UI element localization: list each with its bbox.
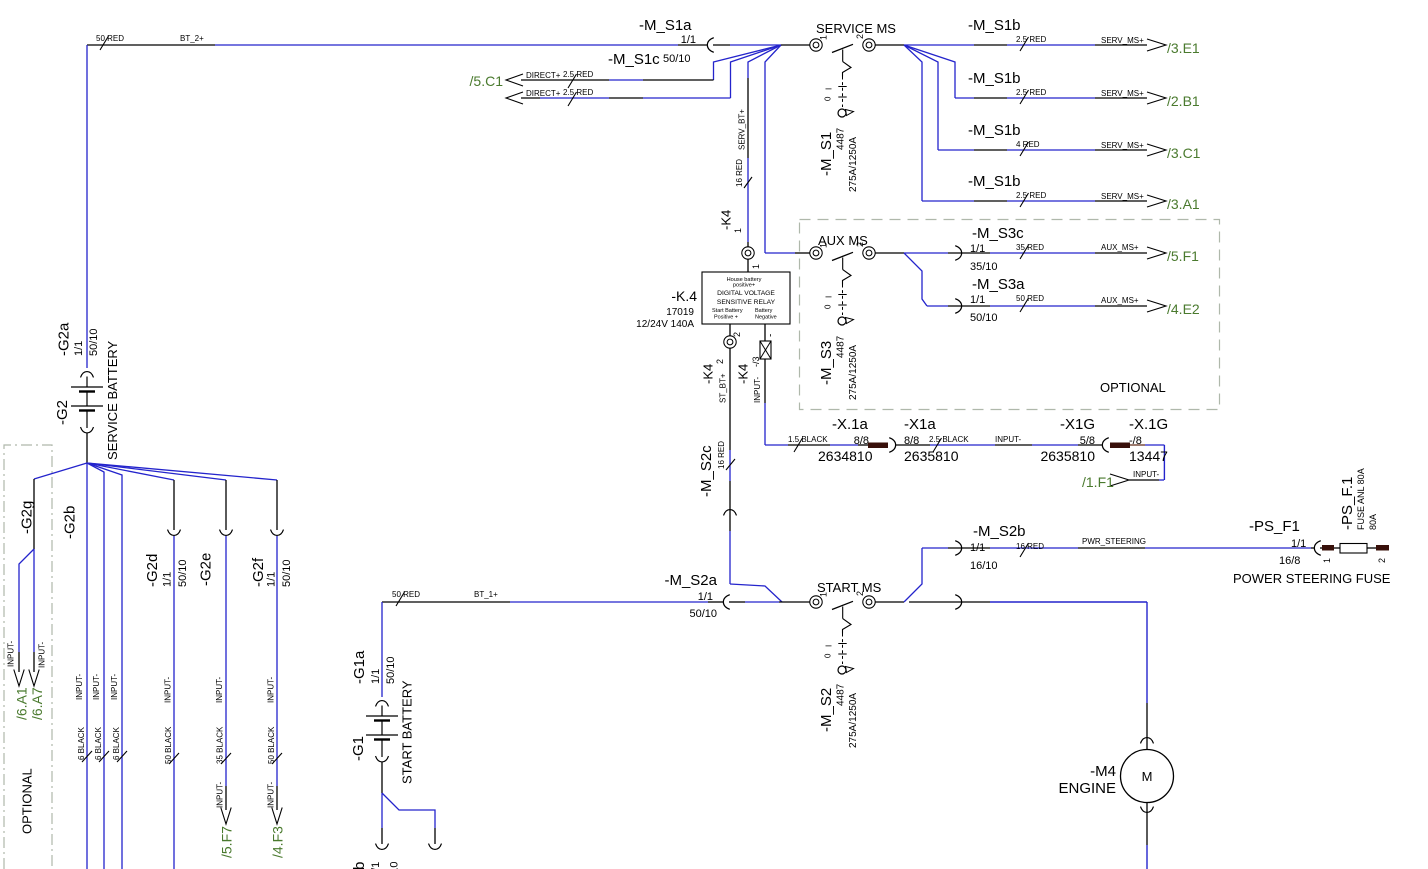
svg-text:50 RED: 50 RED — [392, 590, 420, 599]
svg-text:2: 2 — [732, 332, 742, 337]
svg-text:INPUT-: INPUT- — [110, 673, 119, 700]
svg-text:1: 1 — [818, 592, 828, 597]
svg-text:-/8: -/8 — [1129, 435, 1142, 447]
svg-text:I: I — [825, 88, 834, 90]
svg-text:1/1: 1/1 — [1291, 538, 1306, 550]
svg-text:-G1a: -G1a — [351, 650, 368, 684]
svg-text:13447: 13447 — [1129, 448, 1168, 464]
svg-text:-K4: -K4 — [718, 210, 733, 230]
svg-text:SERV_MS+: SERV_MS+ — [1101, 192, 1144, 201]
svg-text:16 RED: 16 RED — [735, 159, 744, 187]
svg-text:-M_S1c: -M_S1c — [608, 51, 660, 68]
svg-text:275A/1250A: 275A/1250A — [848, 137, 859, 192]
svg-text:START BATTERY: START BATTERY — [399, 680, 414, 784]
svg-text:-K4: -K4 — [700, 364, 715, 384]
svg-text:-M_S3: -M_S3 — [818, 341, 835, 385]
svg-text:Negative: Negative — [755, 315, 777, 321]
svg-text:INPUT-: INPUT- — [215, 676, 224, 703]
svg-text:6 BLACK: 6 BLACK — [94, 726, 103, 760]
svg-text:50/10: 50/10 — [281, 559, 293, 587]
svg-text:AUX_MS+: AUX_MS+ — [1101, 243, 1139, 252]
svg-text:SERV_MS+: SERV_MS+ — [1101, 89, 1144, 98]
svg-text:-M_S1b: -M_S1b — [968, 173, 1021, 190]
svg-text:OPTIONAL: OPTIONAL — [1100, 380, 1166, 395]
svg-text:INPUT-: INPUT- — [7, 640, 16, 667]
svg-text:2634810: 2634810 — [818, 448, 873, 464]
svg-text:Battery: Battery — [755, 308, 773, 314]
svg-text:-G1: -G1 — [350, 736, 367, 761]
svg-text:4487: 4487 — [835, 127, 846, 150]
svg-text:-M_S2: -M_S2 — [818, 688, 835, 732]
svg-text:2.5 RED: 2.5 RED — [563, 70, 593, 79]
svg-text:-G2f: -G2f — [250, 557, 267, 587]
svg-text:1/1: 1/1 — [370, 862, 382, 869]
svg-text:PWR_STEERING: PWR_STEERING — [1082, 537, 1146, 546]
svg-text:-K4: -K4 — [735, 364, 750, 384]
svg-text:2: 2 — [855, 242, 865, 247]
svg-text:-X.1a: -X.1a — [832, 416, 869, 433]
svg-text:SERVICE MS: SERVICE MS — [816, 21, 896, 36]
svg-text:-G2: -G2 — [54, 400, 71, 425]
svg-text:INPUT-: INPUT- — [92, 673, 101, 700]
svg-text:0: 0 — [824, 304, 833, 309]
svg-text:-PS_F.1: -PS_F.1 — [1339, 477, 1356, 530]
svg-text:-: - — [765, 334, 776, 337]
svg-text:-PS_F1: -PS_F1 — [1249, 518, 1300, 535]
svg-text:50/10: 50/10 — [970, 312, 998, 324]
svg-text:I: I — [825, 645, 834, 647]
svg-text:35/10: 35/10 — [970, 261, 998, 273]
svg-text:-K.4: -K.4 — [671, 288, 697, 304]
svg-text:2.5 RED: 2.5 RED — [563, 88, 593, 97]
svg-text:DIRECT+: DIRECT+ — [526, 89, 561, 98]
svg-text:/1.F1: /1.F1 — [1082, 474, 1114, 490]
svg-text:-G2b: -G2b — [61, 506, 78, 539]
svg-text:OPTIONAL: OPTIONAL — [19, 768, 34, 834]
svg-text:275A/1250A: 275A/1250A — [848, 345, 859, 400]
svg-text:1/1: 1/1 — [970, 243, 985, 255]
svg-text:1/1: 1/1 — [681, 34, 696, 46]
svg-text:-M_S2c: -M_S2c — [698, 445, 715, 497]
svg-text:-M_S3a: -M_S3a — [972, 276, 1025, 293]
svg-text:2635810: 2635810 — [904, 448, 959, 464]
svg-text:-X1G: -X1G — [1060, 416, 1095, 433]
svg-text:DIRECT+: DIRECT+ — [526, 71, 561, 80]
svg-text:FUSE ANL 80A: FUSE ANL 80A — [1356, 468, 1366, 530]
svg-text:SERV_BT+: SERV_BT+ — [738, 109, 747, 150]
svg-text:275A/1250A: 275A/1250A — [848, 693, 859, 748]
svg-text:2.5 RED: 2.5 RED — [1016, 191, 1046, 200]
svg-text:35 BLACK: 35 BLACK — [216, 726, 225, 764]
svg-text:/3.C1: /3.C1 — [1167, 145, 1201, 161]
svg-text:4487: 4487 — [835, 683, 846, 706]
svg-text:/3.A1: /3.A1 — [1167, 196, 1200, 212]
svg-text:50/10: 50/10 — [689, 608, 717, 620]
svg-text:8/8: 8/8 — [854, 435, 869, 447]
svg-text:/2.B1: /2.B1 — [1167, 93, 1200, 109]
svg-text:12/24V 140A: 12/24V 140A — [636, 319, 694, 330]
svg-text:35 RED: 35 RED — [1016, 243, 1044, 252]
svg-text:-M_S2a: -M_S2a — [664, 572, 717, 589]
svg-text:1: 1 — [1322, 558, 1332, 563]
svg-text:SERV_MS+: SERV_MS+ — [1101, 36, 1144, 45]
svg-text:-M4: -M4 — [1090, 763, 1116, 780]
svg-text:1/1: 1/1 — [370, 669, 382, 684]
svg-text:2.5 RED: 2.5 RED — [1016, 88, 1046, 97]
svg-text:1: 1 — [818, 35, 828, 40]
svg-text:2: 2 — [855, 591, 865, 596]
svg-text:50 BLACK: 50 BLACK — [267, 726, 276, 764]
svg-text:5/8: 5/8 — [1080, 435, 1095, 447]
svg-text:50 RED: 50 RED — [1016, 294, 1044, 303]
svg-text:-M_S1a: -M_S1a — [639, 17, 692, 34]
svg-text:1/1: 1/1 — [970, 294, 985, 306]
svg-text:ENGINE: ENGINE — [1058, 780, 1116, 797]
svg-text:4 RED: 4 RED — [1016, 140, 1040, 149]
svg-text:Start Battery: Start Battery — [712, 308, 743, 314]
svg-text:1/1: 1/1 — [266, 572, 278, 587]
svg-text:BT_2+: BT_2+ — [180, 34, 204, 43]
svg-text:17019: 17019 — [666, 307, 694, 318]
svg-text:/5.C1: /5.C1 — [470, 73, 504, 89]
svg-text:/4.E2: /4.E2 — [1167, 301, 1200, 317]
svg-text:INPUT-: INPUT- — [164, 676, 173, 703]
svg-text:16 RED: 16 RED — [1016, 542, 1044, 551]
svg-text:/4.F3: /4.F3 — [270, 826, 286, 858]
svg-text:2635810: 2635810 — [1040, 448, 1095, 464]
svg-text:/3.E1: /3.E1 — [1167, 40, 1200, 56]
svg-text:16 RED: 16 RED — [717, 441, 726, 469]
svg-text:INPUT-: INPUT- — [995, 435, 1022, 444]
svg-text:50/10: 50/10 — [177, 559, 189, 587]
svg-text:SERVICE BATTERY: SERVICE BATTERY — [105, 340, 120, 460]
svg-text:1/1: 1/1 — [73, 341, 85, 356]
svg-text:INPUT-: INPUT- — [38, 641, 47, 668]
svg-text:50 RED: 50 RED — [96, 34, 124, 43]
svg-text:-G2g: -G2g — [18, 501, 35, 534]
svg-text:4487: 4487 — [835, 335, 846, 358]
svg-text:1: 1 — [818, 243, 828, 248]
svg-text:/5.F7: /5.F7 — [219, 826, 235, 858]
svg-text:-M_S1: -M_S1 — [818, 132, 835, 176]
svg-text:-X.1G: -X.1G — [1129, 416, 1168, 433]
svg-text:Positive +: Positive + — [714, 315, 738, 321]
svg-text:1: 1 — [733, 228, 743, 233]
svg-text:6 BLACK: 6 BLACK — [77, 726, 86, 760]
svg-text:2.5 RED: 2.5 RED — [1016, 35, 1046, 44]
svg-text:DIGITAL VOLTAGE: DIGITAL VOLTAGE — [717, 290, 775, 297]
svg-text:1/1: 1/1 — [698, 591, 713, 603]
svg-text:2: 2 — [1377, 558, 1387, 563]
svg-text:I: I — [825, 296, 834, 298]
svg-text:-G1b: -G1b — [351, 862, 368, 869]
svg-text:6 BLACK: 6 BLACK — [112, 726, 121, 760]
svg-text:-X1a: -X1a — [904, 416, 936, 433]
svg-text:INPUT-: INPUT- — [267, 676, 276, 703]
svg-text:2.5 BLACK: 2.5 BLACK — [929, 435, 969, 444]
svg-text:50/10: 50/10 — [88, 328, 100, 356]
svg-text:50/10: 50/10 — [385, 656, 397, 684]
svg-text:M: M — [1142, 769, 1153, 784]
svg-text:INPUT-: INPUT- — [1133, 470, 1160, 479]
svg-text:ST_BT+: ST_BT+ — [719, 373, 728, 403]
svg-text:8/8: 8/8 — [904, 435, 919, 447]
svg-text:80A: 80A — [1368, 514, 1378, 530]
svg-text:16/8: 16/8 — [1279, 555, 1300, 567]
svg-text:0: 0 — [824, 96, 833, 101]
svg-text:-G2e: -G2e — [197, 553, 214, 586]
svg-text:/6.A1: /6.A1 — [14, 687, 30, 720]
svg-text:0: 0 — [824, 653, 833, 658]
svg-text:-G2d: -G2d — [144, 554, 161, 587]
svg-text:AUX_MS+: AUX_MS+ — [1101, 296, 1139, 305]
svg-text:SENSITIVE RELAY: SENSITIVE RELAY — [717, 299, 776, 306]
svg-text:1/1: 1/1 — [162, 572, 174, 587]
svg-text:2: 2 — [715, 359, 725, 364]
svg-text:positive+: positive+ — [733, 283, 755, 289]
svg-text:2: 2 — [855, 34, 865, 39]
svg-text:-M_S1b: -M_S1b — [968, 17, 1021, 34]
svg-text:50/10: 50/10 — [663, 53, 691, 65]
svg-text:16/10: 16/10 — [970, 560, 998, 572]
svg-text:1/1: 1/1 — [970, 542, 985, 554]
svg-text:INPUT-: INPUT- — [267, 781, 276, 808]
svg-text:INPUT-: INPUT- — [75, 673, 84, 700]
svg-text:50 BLACK: 50 BLACK — [164, 726, 173, 764]
svg-text:50/10: 50/10 — [389, 861, 401, 869]
svg-text:SERV_MS+: SERV_MS+ — [1101, 141, 1144, 150]
svg-text:-M_S1b: -M_S1b — [968, 122, 1021, 139]
svg-text:-/3: -/3 — [751, 356, 761, 367]
svg-text:-M_S1b: -M_S1b — [968, 70, 1021, 87]
svg-text:INPUT-: INPUT- — [753, 376, 762, 403]
svg-text:-M_S2b: -M_S2b — [973, 523, 1026, 540]
svg-text:BT_1+: BT_1+ — [474, 590, 498, 599]
svg-text:/6.A7: /6.A7 — [29, 687, 45, 720]
svg-text:1: 1 — [751, 264, 761, 269]
svg-text:INPUT-: INPUT- — [216, 781, 225, 808]
svg-text:-M_S3c: -M_S3c — [972, 225, 1024, 242]
svg-text:1.5 BLACK: 1.5 BLACK — [788, 435, 828, 444]
svg-text:/5.F1: /5.F1 — [1167, 248, 1199, 264]
svg-text:POWER STEERING FUSE: POWER STEERING FUSE — [1233, 571, 1391, 586]
svg-text:-G2a: -G2a — [55, 322, 72, 356]
